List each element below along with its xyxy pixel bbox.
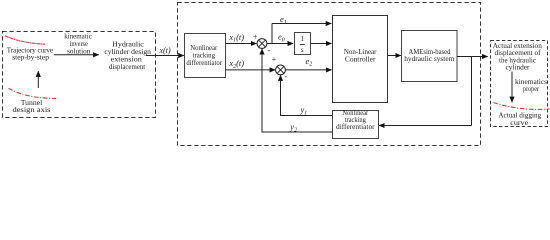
svg-text:cylinder: cylinder bbox=[506, 64, 531, 72]
label: Trajectory curve step-by-step bbox=[7, 46, 53, 61]
svg-text:differentiator: differentiator bbox=[336, 124, 375, 131]
svg-text:hydraulic system: hydraulic system bbox=[404, 55, 455, 63]
wire: feedback to output tracking differentiator bbox=[379, 125, 471, 127]
svg-text:e2: e2 bbox=[306, 56, 313, 68]
wire: e2 to controller bbox=[285, 69, 331, 71]
svg-text:-: - bbox=[284, 72, 287, 81]
svg-text:s: s bbox=[301, 46, 304, 54]
wire: x(t) input arrow bbox=[146, 55, 184, 57]
svg-text:proper: proper bbox=[523, 85, 540, 93]
wire: kinematic inverse solution arrow bbox=[54, 54, 99, 56]
block: AMEsim-based hydraulic system bbox=[402, 31, 458, 82]
label: Actual digging curve bbox=[498, 110, 541, 127]
svg-text:tracking: tracking bbox=[345, 117, 367, 124]
svg-text:+: + bbox=[272, 55, 277, 64]
summing junction (upper) bbox=[257, 39, 267, 49]
red trajectory curve (top left) bbox=[5, 36, 45, 44]
svg-text:e1: e1 bbox=[280, 14, 287, 26]
label: Actual extension displacement of the hydraulic cylinder bbox=[493, 42, 543, 72]
label: kinematic inverse solution bbox=[64, 33, 91, 56]
svg-text:x2(t): x2(t) bbox=[228, 58, 244, 70]
block: integrator 1/s bbox=[295, 33, 311, 55]
wire: e1 branch vertical bbox=[271, 24, 273, 44]
svg-text:curve: curve bbox=[510, 118, 529, 127]
svg-text:y2: y2 bbox=[289, 122, 297, 134]
svg-text:Controller: Controller bbox=[345, 55, 376, 63]
svg-text:+: + bbox=[253, 32, 258, 41]
wire: kinematics proper down arrow bbox=[511, 72, 513, 103]
svg-text:1: 1 bbox=[300, 35, 304, 43]
label: kinematics proper bbox=[515, 78, 547, 93]
wire: feedback branch down bbox=[471, 57, 473, 126]
svg-text:solution: solution bbox=[67, 47, 91, 55]
svg-text:design axis: design axis bbox=[13, 106, 51, 114]
dashed subsystem box: actual output (right) bbox=[491, 41, 548, 127]
svg-text:x(t): x(t) bbox=[159, 46, 171, 55]
wire: y2 feedback to upper summing junction bbox=[262, 49, 333, 132]
svg-text:e0: e0 bbox=[278, 32, 285, 44]
wire: tunnel axis up arrow bbox=[37, 71, 39, 88]
svg-text:y1: y1 bbox=[300, 105, 308, 117]
svg-text:-: - bbox=[268, 46, 271, 55]
wire: x2(t) to lower summing junction bbox=[226, 69, 276, 71]
wire: controller to hydraulic system bbox=[388, 55, 401, 57]
wire: e1 to controller bbox=[272, 23, 331, 25]
label: Hydraulic cylinder design extension displacement bbox=[104, 41, 151, 72]
block: Non-Linear Controller bbox=[333, 16, 388, 103]
svg-text:Nonlinear: Nonlinear bbox=[342, 110, 368, 117]
label: Tunnel design axis bbox=[13, 99, 51, 114]
svg-text:displacement: displacement bbox=[109, 63, 145, 71]
red tunnel design axis curve (bottom left) bbox=[9, 88, 57, 98]
block: Nonlinear tracking differentiator (input) bbox=[185, 34, 226, 78]
wire: y1 feedback to lower summing junction bbox=[281, 75, 333, 115]
svg-text:step-by-step: step-by-step bbox=[12, 54, 49, 62]
red actual digging curve bbox=[494, 103, 550, 110]
wire: hydraulic system output to right box bbox=[457, 56, 488, 58]
wire: x1(t) to upper summing junction bbox=[226, 43, 257, 45]
dashed subsystem box: trajectory planning (left) bbox=[3, 32, 156, 118]
block: Nonlinear tracking differentiator (feedback) bbox=[333, 110, 379, 139]
svg-text:x1(t): x1(t) bbox=[228, 32, 244, 44]
svg-text:differentiator: differentiator bbox=[186, 59, 222, 67]
dashed subsystem box: control system (middle) bbox=[178, 3, 481, 146]
wire: e0 to integrator bbox=[267, 43, 293, 45]
summing junction (lower) bbox=[276, 65, 286, 75]
wire: integrator output to controller bbox=[311, 43, 332, 45]
